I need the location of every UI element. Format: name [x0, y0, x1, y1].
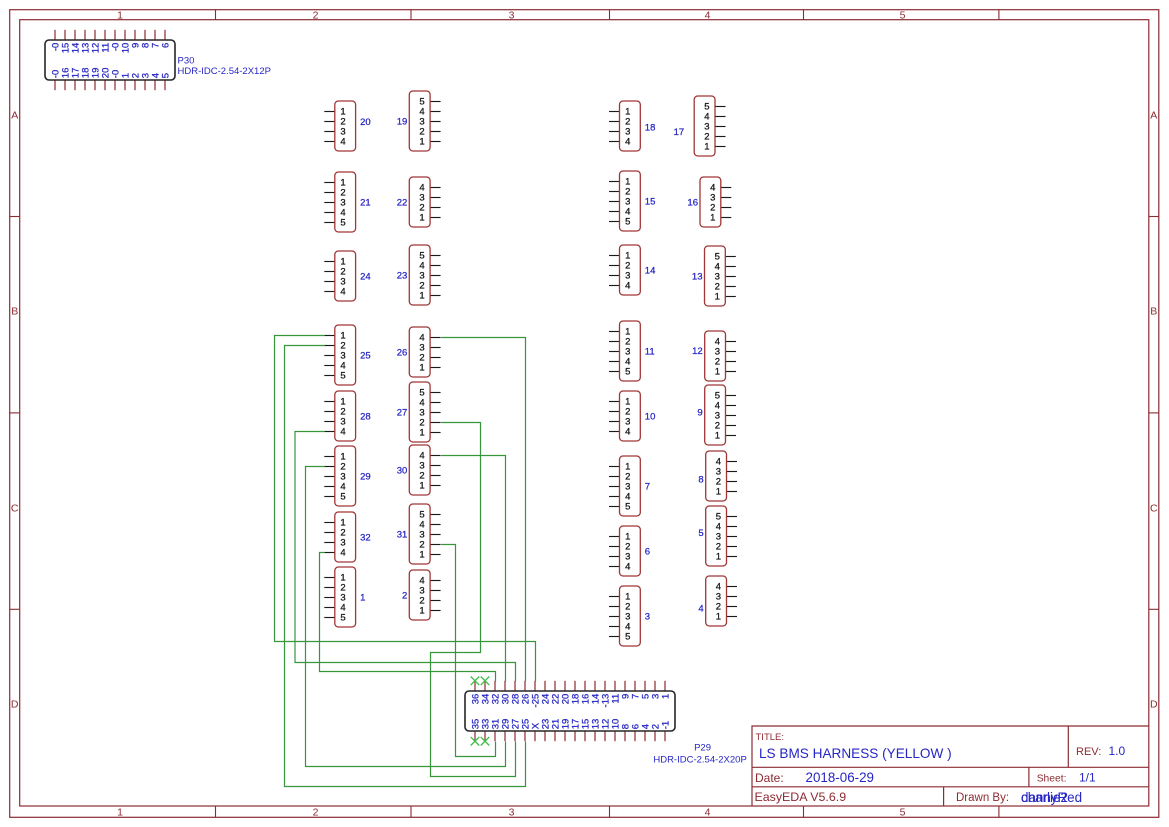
- svg-text:5: 5: [625, 216, 630, 227]
- J5 pin numbers 1-5: [716, 511, 721, 562]
- J2 body outline: [409, 570, 430, 620]
- J8 pin leads: [727, 462, 738, 492]
- svg-text:A: A: [11, 110, 18, 122]
- connector J9 (5-pin header, pins R): [697, 385, 736, 445]
- row letters A-D right: [1150, 110, 1158, 711]
- J19 pin leads: [430, 102, 441, 142]
- J32 body outline: [335, 512, 356, 562]
- svg-text:1: 1: [419, 549, 424, 560]
- connector J15 (5-pin header, pins L): [609, 171, 655, 231]
- svg-text:B: B: [11, 306, 18, 318]
- P29 pin net name labels: [470, 694, 671, 730]
- J4 pin numbers 1-4: [716, 581, 721, 622]
- connector J16 (4-pin header, pins R): [687, 177, 731, 227]
- J16 body outline: [700, 177, 721, 227]
- svg-text:4: 4: [705, 806, 711, 818]
- svg-text:1: 1: [715, 366, 720, 377]
- svg-text:dannyRed: dannyRed: [1021, 790, 1082, 805]
- no-connect X on P29 pin 36: [471, 677, 480, 686]
- J28 body outline: [335, 391, 356, 441]
- svg-text:A: A: [1150, 110, 1157, 122]
- J19 body outline: [409, 91, 430, 151]
- svg-text:-1: -1: [660, 721, 671, 729]
- svg-text:4: 4: [625, 561, 630, 572]
- svg-text:1.0: 1.0: [1109, 744, 1126, 758]
- J10 pin numbers 1-4: [625, 396, 630, 437]
- svg-text:TITLE:: TITLE:: [756, 732, 785, 743]
- svg-text:1: 1: [716, 611, 721, 622]
- J17 pin leads: [715, 107, 726, 147]
- J13 body outline: [705, 246, 726, 306]
- J9 pin leads: [726, 396, 737, 436]
- svg-text:4: 4: [625, 136, 630, 147]
- wire J29 pin2 to P29 pin 29: [306, 467, 506, 767]
- connector J13 (5-pin header, pins R): [692, 246, 736, 306]
- J29 pin leads: [324, 457, 335, 497]
- J9 pin numbers 1-5: [715, 390, 720, 441]
- svg-text:5: 5: [160, 73, 171, 78]
- J15 body outline: [620, 171, 641, 231]
- svg-text:17: 17: [674, 127, 685, 138]
- svg-text:2: 2: [402, 590, 407, 601]
- svg-text:1: 1: [419, 427, 424, 438]
- svg-text:15: 15: [645, 196, 656, 207]
- svg-text:12: 12: [692, 346, 703, 357]
- J23 pin leads: [430, 256, 441, 296]
- svg-text:6: 6: [160, 43, 171, 48]
- svg-text:5: 5: [340, 370, 345, 381]
- svg-text:26: 26: [397, 347, 408, 358]
- J10 pin leads: [609, 402, 620, 432]
- J24 pin numbers 1-4: [340, 256, 345, 297]
- connector J30 (4-pin header, pins R): [397, 445, 441, 495]
- svg-text:5: 5: [340, 217, 345, 228]
- J26 body outline: [409, 327, 430, 377]
- svg-text:9: 9: [697, 407, 702, 418]
- svg-text:1: 1: [419, 136, 424, 147]
- svg-text:25: 25: [360, 350, 371, 361]
- svg-text:1: 1: [117, 806, 123, 818]
- svg-text:1: 1: [419, 362, 424, 373]
- J20 pin numbers 1-4: [340, 106, 345, 147]
- svg-text:LS BMS HARNESS (YELLOW ): LS BMS HARNESS (YELLOW ): [759, 746, 952, 761]
- wire J31 pin2 to P29 pin 31: [441, 545, 495, 757]
- J1 pin numbers 1-5: [340, 572, 345, 623]
- svg-text:1: 1: [360, 592, 365, 603]
- wire J25 pin1 to P29 pin -25: [275, 336, 536, 682]
- J30 body outline: [409, 445, 430, 495]
- svg-text:1: 1: [715, 430, 720, 441]
- J3 pin leads: [609, 597, 620, 637]
- J14 pin leads: [609, 256, 620, 286]
- connector J7 (5-pin header, pins L): [609, 456, 650, 516]
- connector J27 (5-pin header, pins R): [397, 382, 441, 442]
- svg-text:C: C: [1150, 503, 1158, 515]
- connector J14 (4-pin header, pins L): [609, 245, 655, 295]
- no-connect X on P29 pin 34: [481, 677, 490, 686]
- svg-text:32: 32: [360, 532, 371, 543]
- svg-text:31: 31: [397, 529, 408, 540]
- svg-text:3: 3: [509, 9, 515, 21]
- svg-text:4: 4: [698, 603, 703, 614]
- J12 body outline: [705, 331, 726, 381]
- J6 pin leads: [609, 537, 620, 567]
- connector J10 (4-pin header, pins L): [609, 391, 655, 441]
- svg-text:8: 8: [698, 474, 703, 485]
- svg-text:1: 1: [419, 605, 424, 616]
- wire J32 pin4 to P29 pin 32: [320, 553, 496, 682]
- column numbers 1-5 bottom: [117, 806, 906, 818]
- svg-text:P30: P30: [178, 56, 195, 67]
- svg-text:4: 4: [340, 286, 345, 297]
- J28 pin leads: [324, 402, 335, 432]
- connector J4 (4-pin header, pins R): [698, 576, 737, 626]
- J4 pin leads: [727, 587, 738, 617]
- connector P30 HDR-IDC-2.54-2X12P (2x12 header): [45, 30, 175, 90]
- svg-text:5: 5: [625, 501, 630, 512]
- connector J11 (5-pin header, pins L): [609, 321, 655, 381]
- J16 pin numbers 1-4: [710, 182, 715, 223]
- svg-text:1: 1: [716, 551, 721, 562]
- svg-text:5: 5: [698, 528, 703, 539]
- connector J2 (4-pin header, pins R): [402, 570, 441, 620]
- connector P29 HDR-IDC-2.54-2X20P (2x20 header): [465, 681, 675, 741]
- svg-text:4: 4: [705, 9, 711, 21]
- J27 body outline: [409, 382, 430, 442]
- J23 body outline: [409, 245, 430, 305]
- J1 body outline: [335, 567, 356, 627]
- svg-text:4: 4: [625, 280, 630, 291]
- connector J31 (5-pin header, pins R): [397, 504, 441, 564]
- J25 pin leads: [324, 336, 335, 376]
- J3 body outline: [620, 586, 641, 646]
- svg-text:P29: P29: [694, 743, 711, 754]
- connector J24 (4-pin header, pins L): [324, 251, 370, 301]
- svg-text:1: 1: [419, 480, 424, 491]
- svg-text:7: 7: [645, 481, 650, 492]
- wire J30 pin4 to P29 pin 30: [441, 456, 505, 682]
- svg-text:2: 2: [313, 9, 319, 21]
- connector J20 (4-pin header, pins L): [324, 101, 370, 151]
- J14 body outline: [620, 245, 641, 295]
- svg-text:24: 24: [360, 271, 371, 282]
- J14 pin numbers 1-4: [625, 250, 630, 291]
- J11 pin leads: [609, 332, 620, 372]
- svg-text:D: D: [1150, 699, 1158, 711]
- J27 pin numbers 1-5: [419, 387, 424, 438]
- svg-text:1: 1: [704, 141, 709, 152]
- J15 pin numbers 1-5: [625, 176, 630, 227]
- J21 pin numbers 1-5: [340, 177, 345, 228]
- J6 body outline: [620, 526, 641, 576]
- J18 pin leads: [609, 112, 620, 142]
- connector J18 (4-pin header, pins L): [609, 101, 655, 151]
- J32 pin numbers 1-4: [340, 517, 345, 558]
- svg-text:3: 3: [509, 806, 515, 818]
- J22 pin leads: [430, 188, 441, 218]
- J25 body outline: [335, 325, 356, 385]
- svg-text:18: 18: [645, 122, 656, 133]
- svg-text:5: 5: [900, 9, 906, 21]
- connector J5 (5-pin header, pins R): [698, 506, 737, 566]
- J29 body outline: [335, 446, 356, 506]
- svg-text:3: 3: [645, 611, 650, 622]
- J6 pin numbers 1-4: [625, 531, 630, 572]
- column numbers 1-5 top: [117, 9, 906, 21]
- connector J23 (5-pin header, pins R): [397, 245, 441, 305]
- J9 body outline: [705, 385, 726, 445]
- connector J28 (4-pin header, pins L): [324, 391, 370, 441]
- svg-text:4: 4: [625, 426, 630, 437]
- row tick marks left: [10, 217, 20, 610]
- svg-text:C: C: [11, 503, 19, 515]
- J7 body outline: [620, 456, 641, 516]
- column tick marks top: [216, 10, 999, 20]
- connector J26 (4-pin header, pins R): [397, 327, 441, 377]
- svg-text:REV:: REV:: [1076, 746, 1101, 758]
- P29 body outline: [465, 691, 675, 731]
- J11 body outline: [620, 321, 641, 381]
- connector J1 (5-pin header, pins L): [324, 567, 365, 627]
- svg-text:Date:: Date:: [755, 771, 784, 785]
- J31 pin leads: [430, 515, 441, 555]
- svg-text:1: 1: [419, 290, 424, 301]
- row letters A-D left: [11, 110, 19, 711]
- svg-text:21: 21: [360, 197, 371, 208]
- connector J29 (5-pin header, pins L): [324, 446, 370, 506]
- J4 body outline: [706, 576, 727, 626]
- svg-text:27: 27: [397, 407, 408, 418]
- J31 pin numbers 1-5: [419, 509, 424, 560]
- J8 body outline: [706, 451, 727, 501]
- J30 pin leads: [430, 456, 441, 486]
- J30 pin numbers 1-4: [419, 450, 424, 491]
- wire J27 pin2 to P29 pin 27: [431, 423, 516, 777]
- J15 pin leads: [609, 182, 620, 222]
- J11 pin numbers 1-5: [625, 326, 630, 377]
- svg-text:1: 1: [715, 291, 720, 302]
- svg-text:1: 1: [660, 694, 671, 699]
- no-connect X on P29 pin 33: [481, 737, 490, 746]
- svg-text:1: 1: [419, 212, 424, 223]
- svg-text:20: 20: [360, 117, 371, 128]
- svg-text:10: 10: [645, 411, 656, 422]
- svg-text:5: 5: [625, 631, 630, 642]
- svg-text:B: B: [1150, 306, 1157, 318]
- J25 pin numbers 1-5: [340, 330, 345, 381]
- J16 pin leads: [721, 188, 732, 218]
- connector J6 (4-pin header, pins L): [609, 526, 650, 576]
- svg-text:5: 5: [340, 612, 345, 623]
- J5 pin leads: [727, 517, 738, 557]
- svg-text:4: 4: [340, 426, 345, 437]
- svg-text:6: 6: [645, 546, 650, 557]
- J28 pin numbers 1-4: [340, 396, 345, 437]
- connector J32 (4-pin header, pins L): [324, 512, 370, 562]
- connector J3 (5-pin header, pins L): [609, 586, 650, 646]
- svg-text:16: 16: [687, 197, 698, 208]
- J18 body outline: [620, 101, 641, 151]
- J27 pin leads: [430, 393, 441, 433]
- svg-text:30: 30: [397, 465, 408, 476]
- J13 pin leads: [725, 257, 736, 297]
- J24 pin leads: [324, 262, 335, 292]
- J2 pin leads: [430, 581, 441, 611]
- J21 pin leads: [324, 183, 335, 223]
- svg-text:11: 11: [645, 346, 655, 357]
- svg-text:5: 5: [900, 806, 906, 818]
- no-connect X on P29 pin 35: [471, 737, 480, 746]
- connector J22 (4-pin header, pins R): [397, 177, 441, 227]
- svg-text:D: D: [11, 699, 19, 711]
- svg-text:Drawn By:: Drawn By:: [956, 792, 1009, 804]
- row tick marks right: [1149, 217, 1159, 610]
- J21 body outline: [335, 172, 356, 232]
- svg-text:Sheet:: Sheet:: [1037, 774, 1067, 785]
- svg-text:1: 1: [710, 212, 715, 223]
- svg-text:2: 2: [313, 806, 319, 818]
- svg-text:HDR-IDC-2.54-2X12P: HDR-IDC-2.54-2X12P: [178, 66, 271, 77]
- wire J28 pin4 to P29 pin 28: [295, 432, 516, 682]
- svg-text:HDR-IDC-2.54-2X20P: HDR-IDC-2.54-2X20P: [653, 755, 746, 766]
- J22 pin numbers 1-4: [419, 182, 424, 223]
- J19 pin numbers 1-5: [419, 96, 424, 147]
- J3 pin numbers 1-5: [625, 591, 630, 642]
- J10 body outline: [620, 391, 641, 441]
- svg-text:22: 22: [397, 197, 408, 208]
- svg-text:4: 4: [340, 136, 345, 147]
- J12 pin leads: [726, 342, 737, 372]
- J22 body outline: [409, 177, 430, 227]
- svg-text:1: 1: [716, 486, 721, 497]
- title block border lines: [752, 726, 1149, 806]
- connector J8 (4-pin header, pins R): [698, 451, 737, 501]
- J7 pin leads: [609, 467, 620, 507]
- svg-text:13: 13: [692, 271, 703, 282]
- J5 body outline: [706, 506, 727, 566]
- J29 pin numbers 1-5: [340, 451, 345, 502]
- J32 pin leads: [324, 523, 335, 553]
- svg-text:2018-06-29: 2018-06-29: [806, 770, 875, 785]
- wire J26 pin4 to P29 pin 26: [441, 338, 525, 682]
- connector J12 (4-pin header, pins R): [692, 331, 736, 381]
- P30 pin stubs: [55, 30, 165, 90]
- connector J21 (5-pin header, pins L): [324, 172, 370, 232]
- J1 pin leads: [324, 578, 335, 618]
- svg-text:1/1: 1/1: [1079, 771, 1096, 785]
- svg-text:5: 5: [340, 491, 345, 502]
- J12 pin numbers 1-4: [715, 336, 720, 377]
- J26 pin numbers 1-4: [419, 332, 424, 373]
- column tick marks bottom: [216, 806, 999, 817]
- P29 pin stubs: [475, 681, 665, 741]
- connector J19 (5-pin header, pins R): [397, 91, 441, 151]
- J2 pin numbers 1-4: [419, 575, 424, 616]
- svg-text:19: 19: [397, 116, 408, 127]
- J31 body outline: [409, 504, 430, 564]
- J17 pin numbers 1-5: [704, 101, 709, 152]
- svg-text:14: 14: [645, 265, 656, 276]
- svg-text:EasyEDA V5.6.9: EasyEDA V5.6.9: [755, 790, 847, 804]
- J24 body outline: [335, 251, 356, 301]
- J17 body outline: [694, 96, 715, 156]
- svg-text:1: 1: [117, 9, 123, 21]
- connector J25 (5-pin header, pins L): [324, 325, 370, 385]
- P30 pin net name labels: [50, 43, 171, 78]
- connector J17 (5-pin header, pins R): [674, 96, 726, 156]
- J20 pin leads: [324, 112, 335, 142]
- J18 pin numbers 1-4: [625, 106, 630, 147]
- J8 pin numbers 1-4: [716, 456, 721, 497]
- J20 body outline: [335, 101, 356, 151]
- svg-text:4: 4: [340, 547, 345, 558]
- J26 pin leads: [430, 338, 441, 368]
- wire J25 pin2 to P29 pin 25: [285, 346, 526, 787]
- J23 pin numbers 1-5: [419, 250, 424, 301]
- svg-text:28: 28: [360, 411, 371, 422]
- J7 pin numbers 1-5: [625, 461, 630, 512]
- J13 pin numbers 1-5: [715, 251, 720, 302]
- svg-text:23: 23: [397, 270, 408, 281]
- svg-text:29: 29: [360, 471, 371, 482]
- P30 body outline: [45, 40, 175, 80]
- svg-text:5: 5: [625, 366, 630, 377]
